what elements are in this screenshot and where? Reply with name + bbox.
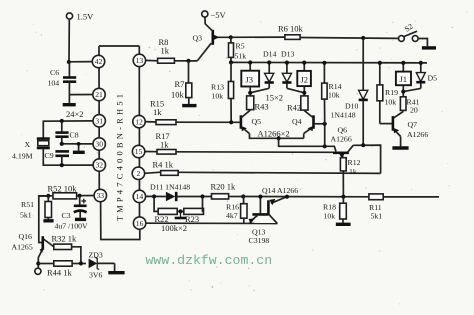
svg-text:Q5: Q5 xyxy=(252,117,262,126)
svg-text:R52 10k: R52 10k xyxy=(48,184,78,194)
resistor R42 xyxy=(287,96,308,113)
zener ZD3 3V6 xyxy=(89,251,115,280)
resistor R6 xyxy=(278,24,304,40)
resistor R43 xyxy=(247,96,269,112)
capacitor C3 electrolytic xyxy=(55,196,89,231)
transistor Q5 xyxy=(241,110,304,138)
svg-text:A1266: A1266 xyxy=(407,130,428,139)
svg-text:R6 10k: R6 10k xyxy=(278,24,304,34)
node junction R51 top xyxy=(46,194,50,198)
svg-text:D11 1N4148: D11 1N4148 xyxy=(150,183,190,192)
svg-text:12: 12 xyxy=(135,117,143,126)
svg-text:10k: 10k xyxy=(324,212,336,221)
terminal 1.5V xyxy=(66,12,94,22)
resistor R32 xyxy=(52,234,78,250)
resistor R11 xyxy=(369,194,383,221)
wire C8/C9 node to pin30 xyxy=(62,143,93,145)
wire R17 long to Q6 xyxy=(176,151,334,154)
pin 14 xyxy=(133,190,145,202)
pin 2 xyxy=(132,167,144,179)
resistor R8 xyxy=(158,37,175,63)
svg-text:15×2: 15×2 xyxy=(266,93,284,103)
node junction R23 riser xyxy=(200,194,204,198)
svg-text:21: 21 xyxy=(95,90,103,99)
wire rail -5V top xyxy=(231,36,285,38)
wire pin13 to R8 xyxy=(146,59,158,61)
node junction emitter tap xyxy=(277,136,281,140)
wire to pin42 xyxy=(69,61,92,63)
pin 42 xyxy=(92,55,104,67)
diode D13 xyxy=(281,50,295,89)
svg-text:D14: D14 xyxy=(263,50,277,59)
svg-text:Q14 A1266: Q14 A1266 xyxy=(262,186,298,195)
pin 31 xyxy=(93,115,105,127)
svg-text:R5: R5 xyxy=(236,42,245,51)
svg-text:Q4: Q4 xyxy=(292,117,302,126)
ground after ZD3 xyxy=(108,263,124,272)
svg-text:R12: R12 xyxy=(348,158,361,167)
node junction R14 bottom xyxy=(323,122,327,126)
wire R32 right down xyxy=(72,247,81,264)
wire Q4 base riser xyxy=(324,124,326,147)
node junction D13 top xyxy=(285,61,289,65)
transistor Q6 xyxy=(331,126,354,159)
ground under R51 xyxy=(43,219,53,222)
node junction R42 top xyxy=(302,91,306,95)
node junction J1 top xyxy=(401,61,405,65)
node junction R44/R32/ZD3 xyxy=(79,261,83,265)
pin 16 xyxy=(133,217,145,229)
svg-text:10k: 10k xyxy=(328,91,340,100)
wire crystal bottom to pin32 xyxy=(43,148,93,165)
transistor Q13 C3198 xyxy=(249,197,270,245)
node junction R18 top xyxy=(341,195,345,199)
svg-text:D10: D10 xyxy=(345,102,359,111)
svg-text:Q16: Q16 xyxy=(19,232,33,241)
node junction Q14 emitter xyxy=(285,195,289,199)
IC TMP47C400BN-RH51 body xyxy=(99,46,140,223)
wire D14 to R43 node xyxy=(250,88,269,93)
svg-text:1k: 1k xyxy=(161,46,170,56)
ground under Q7 xyxy=(392,146,408,149)
svg-text:TMP47C400BN-RH51: TMP47C400BN-RH51 xyxy=(115,91,125,222)
transistor Q7 A1266 xyxy=(380,112,429,147)
svg-text:10k: 10k xyxy=(171,90,185,100)
svg-text:2: 2 xyxy=(137,169,141,178)
node junction R19 top xyxy=(378,61,382,65)
switch S2 xyxy=(399,22,428,47)
svg-text:J1: J1 xyxy=(400,74,408,84)
svg-text:24×2: 24×2 xyxy=(66,109,84,119)
svg-text:Q3: Q3 xyxy=(193,34,203,43)
svg-text:1.5V: 1.5V xyxy=(77,12,95,22)
svg-text:R7: R7 xyxy=(175,79,185,89)
diode D14 xyxy=(263,50,277,89)
wire Q3 base diagonal xyxy=(197,43,211,61)
wire 1.5V down xyxy=(68,19,70,62)
svg-text:14: 14 xyxy=(136,192,144,201)
svg-text:R19: R19 xyxy=(385,88,398,97)
terminal Q16 emitter xyxy=(35,268,41,274)
svg-text:J2: J2 xyxy=(301,75,309,85)
wire emitter tap down/right xyxy=(279,138,336,151)
pin 33 xyxy=(94,189,106,201)
wire pin14 to D11 xyxy=(146,195,166,197)
svg-text:ZD3: ZD3 xyxy=(89,251,103,260)
pin 12 xyxy=(133,115,145,127)
wire R8 to base node xyxy=(174,60,197,62)
svg-text:C3198: C3198 xyxy=(249,236,270,245)
ground under C6 xyxy=(63,95,76,105)
wire pin33 to R52 xyxy=(77,195,95,197)
svg-text:42: 42 xyxy=(95,57,103,66)
terminal -5V xyxy=(202,10,227,20)
svg-text:R42: R42 xyxy=(287,103,301,113)
resistor R52 xyxy=(48,184,78,199)
svg-text:5k1: 5k1 xyxy=(20,211,32,220)
node junction C9 bottom xyxy=(60,163,64,167)
svg-text:1k: 1k xyxy=(153,107,162,117)
crystal X 4.19M xyxy=(12,139,50,161)
wire R52 left xyxy=(39,195,53,197)
wire rail output right xyxy=(383,196,439,198)
node junction C3 top xyxy=(78,194,82,198)
svg-text:S2: S2 xyxy=(403,22,415,34)
svg-text:R18: R18 xyxy=(323,203,336,212)
resistor R20 xyxy=(211,182,244,200)
svg-text:31: 31 xyxy=(95,117,103,126)
pin 32 xyxy=(93,159,105,171)
node junction D11 left xyxy=(152,194,156,198)
svg-text:4.19M: 4.19M xyxy=(12,152,33,161)
resistor R41 xyxy=(400,97,419,115)
node junction R44 left xyxy=(36,261,40,265)
wire D13 to R42 node xyxy=(287,88,304,93)
ground under C3 xyxy=(75,218,86,221)
node junction Q5 base xyxy=(229,120,233,124)
wire D5 to R41 node xyxy=(403,88,421,91)
svg-text:1k: 1k xyxy=(349,167,357,176)
svg-text:13: 13 xyxy=(136,56,144,65)
wire J3 bottom xyxy=(249,87,251,96)
relay J2 xyxy=(297,63,311,87)
node junction D14 top xyxy=(267,60,271,64)
svg-text:R32 1k: R32 1k xyxy=(52,234,78,244)
svg-text:4u7 /100V: 4u7 /100V xyxy=(55,222,89,231)
resistor R12 xyxy=(340,156,360,197)
svg-text:100k×2: 100k×2 xyxy=(161,223,187,233)
resistor R44 xyxy=(38,261,86,278)
wire pin16 bottom line xyxy=(146,222,278,224)
wire crystal top to pin31 xyxy=(43,121,93,138)
diode D10 1N4148 xyxy=(331,38,368,145)
node junction 1.5V/C6 xyxy=(67,60,71,64)
relay J1 xyxy=(396,63,411,97)
wire R15 to Q5 base xyxy=(176,121,240,123)
pin 15 xyxy=(132,145,144,157)
svg-text:104: 104 xyxy=(48,79,60,88)
wire Q6 collector loop xyxy=(353,145,380,173)
resistor R51 xyxy=(20,196,52,220)
resistor R4 xyxy=(153,160,179,176)
wire R4 long to Q6 loop xyxy=(178,172,380,173)
node junction J3 top xyxy=(248,60,252,64)
resistor R13 xyxy=(211,62,234,122)
svg-text:R4 1k: R4 1k xyxy=(153,160,174,170)
node junction R43 top xyxy=(248,91,252,95)
resistor R18 xyxy=(323,197,346,223)
svg-text:4k7: 4k7 xyxy=(226,211,238,220)
svg-text:16: 16 xyxy=(136,219,144,228)
pin 13 xyxy=(133,54,145,66)
transistor Q3 xyxy=(193,17,231,45)
diode D11 1N4148 xyxy=(150,183,212,202)
svg-text:32: 32 xyxy=(96,161,104,170)
svg-text:R13: R13 xyxy=(211,83,224,92)
svg-text:1N4148: 1N4148 xyxy=(331,111,356,120)
svg-text:R44 1k: R44 1k xyxy=(47,268,73,278)
svg-text:www.dzkfw.com.cn: www.dzkfw.com.cn xyxy=(146,253,273,268)
svg-text:C9: C9 xyxy=(45,151,54,160)
svg-text:R20 1k: R20 1k xyxy=(211,182,237,192)
svg-text:51k: 51k xyxy=(235,52,247,61)
svg-text:X: X xyxy=(25,140,31,149)
node junction R5 top xyxy=(229,35,233,39)
resistor R14 xyxy=(322,63,342,124)
wire pin2 to R4 xyxy=(145,172,161,173)
svg-text:1k: 1k xyxy=(160,140,169,150)
svg-text:3V6: 3V6 xyxy=(89,271,103,280)
svg-text:Q6: Q6 xyxy=(338,126,348,135)
resistor R5 51k xyxy=(229,37,247,62)
node junction R22/R23 mid xyxy=(175,209,187,218)
ground under R7 xyxy=(182,104,196,107)
svg-text:−5V: −5V xyxy=(211,10,227,20)
svg-text:15: 15 xyxy=(135,147,143,156)
capacitor C8 xyxy=(55,121,78,144)
node junction R14 top xyxy=(322,61,326,65)
capacitor C6 xyxy=(48,62,77,95)
svg-text:J3: J3 xyxy=(246,75,254,85)
svg-text:R51: R51 xyxy=(21,200,34,209)
ground stub mid C8/C9 xyxy=(73,142,85,152)
resistor R17 xyxy=(145,131,176,154)
node junction D10 top xyxy=(361,36,365,40)
ground after S2 xyxy=(422,46,436,49)
wire pin33 to pin16 bottom xyxy=(101,202,140,240)
svg-text:Q7: Q7 xyxy=(408,120,418,129)
svg-text:A1266×2: A1266×2 xyxy=(258,129,290,139)
wire rail output xyxy=(243,196,369,198)
ground under R18 xyxy=(336,223,351,226)
resistor R22 xyxy=(155,208,178,224)
node junction R41 top xyxy=(401,90,405,94)
svg-text:10k: 10k xyxy=(212,92,224,101)
svg-text:10k: 10k xyxy=(385,98,397,107)
relay J3 xyxy=(241,63,259,87)
node junction J2 top xyxy=(302,61,306,65)
svg-text:5k1: 5k1 xyxy=(371,212,383,221)
resistor R15 xyxy=(150,99,176,125)
wire pin12 to R15 xyxy=(145,121,156,123)
svg-text:D13: D13 xyxy=(281,50,295,59)
node junction R7 top xyxy=(186,59,190,63)
svg-text:A1266: A1266 xyxy=(331,135,352,144)
pin 30 xyxy=(93,138,105,150)
node junction C8/C9 xyxy=(60,142,64,146)
wire rail R6 to S2 xyxy=(300,37,398,40)
transistor Q16 A1265 xyxy=(12,232,54,268)
svg-text:C3: C3 xyxy=(62,211,71,220)
svg-text:R43: R43 xyxy=(255,102,269,112)
svg-text:C6: C6 xyxy=(50,68,59,77)
node junction R13 top xyxy=(229,60,233,64)
resistor R19 xyxy=(377,63,398,124)
pin 21 xyxy=(93,88,105,100)
node junction Q4 base riser xyxy=(323,144,327,148)
transistor Q4 xyxy=(292,111,325,139)
svg-text:20: 20 xyxy=(410,106,418,115)
capacitor C9 xyxy=(45,151,70,165)
node junction Q13 collector xyxy=(258,195,262,199)
resistor R16 xyxy=(226,197,247,224)
wire R22 branch down xyxy=(154,197,158,212)
node junction D10 bottom xyxy=(361,143,365,147)
svg-text:C8: C8 xyxy=(70,131,79,140)
diode D5 xyxy=(416,63,437,89)
wire J2 bottom xyxy=(303,86,305,96)
node junction C8 top xyxy=(60,119,64,123)
svg-text:33: 33 xyxy=(97,191,105,200)
wire C6 to pin21 xyxy=(69,94,92,96)
resistor R7 xyxy=(171,61,192,104)
node junction R16 top xyxy=(241,194,245,198)
wire Q16 base xyxy=(39,196,49,243)
svg-text:30: 30 xyxy=(95,140,103,149)
resistor R23 xyxy=(184,197,204,225)
svg-text:A1265: A1265 xyxy=(12,243,33,252)
wire rail mid 62 xyxy=(231,61,427,64)
node junction D5 top xyxy=(419,61,423,65)
svg-text:D5: D5 xyxy=(428,74,438,83)
transistor Q14 A1266 xyxy=(262,186,298,224)
